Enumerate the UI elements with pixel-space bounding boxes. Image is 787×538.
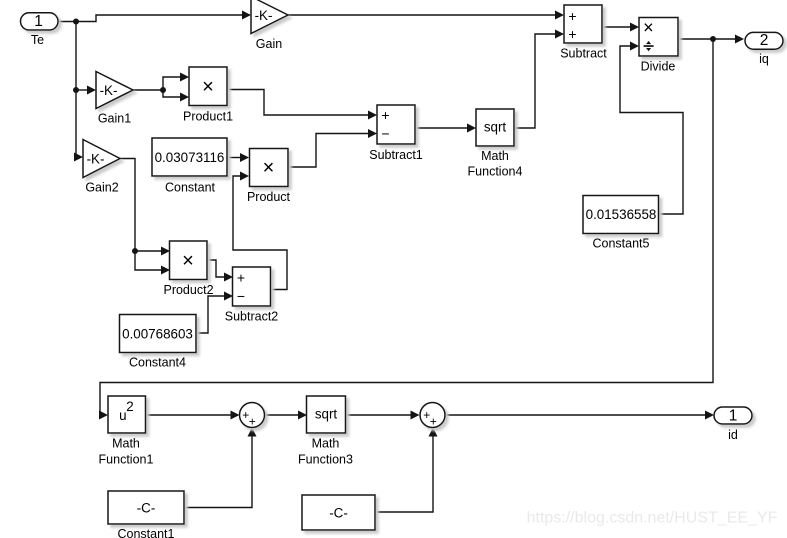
svg-text:Math: Math bbox=[112, 437, 140, 451]
svg-text:+: + bbox=[568, 8, 576, 24]
svg-text:0.03073116: 0.03073116 bbox=[155, 150, 225, 165]
svg-text:Gain1: Gain1 bbox=[98, 112, 131, 126]
svg-text:Divide: Divide bbox=[641, 59, 676, 73]
svg-text:2: 2 bbox=[760, 32, 769, 49]
svg-text:-C-: -C- bbox=[329, 506, 348, 521]
svg-text:sqrt: sqrt bbox=[315, 407, 338, 422]
svg-text:Constant1: Constant1 bbox=[118, 527, 175, 538]
svg-text:-K-: -K- bbox=[87, 152, 105, 167]
svg-text:×: × bbox=[263, 157, 275, 179]
svg-text:Math: Math bbox=[312, 437, 340, 451]
svg-text:Gain: Gain bbox=[256, 37, 282, 51]
svg-text:Constant5: Constant5 bbox=[593, 236, 650, 250]
svg-text:Math: Math bbox=[481, 149, 509, 163]
svg-text:Constant4: Constant4 bbox=[129, 356, 186, 370]
svg-text:+: + bbox=[568, 26, 576, 42]
svg-text:sqrt: sqrt bbox=[484, 120, 507, 135]
svg-text:1: 1 bbox=[34, 13, 43, 30]
svg-text:-K-: -K- bbox=[100, 83, 118, 98]
svg-text:Function1: Function1 bbox=[99, 452, 154, 466]
svg-text:+: + bbox=[237, 269, 245, 285]
svg-text:Product1: Product1 bbox=[183, 109, 233, 123]
svg-text:Function3: Function3 bbox=[298, 452, 353, 466]
svg-text:Product2: Product2 bbox=[163, 283, 213, 297]
svg-text:Subtract2: Subtract2 bbox=[225, 310, 279, 324]
svg-text:×: × bbox=[202, 76, 214, 98]
svg-text:×: × bbox=[182, 250, 194, 272]
svg-text:−: − bbox=[237, 288, 245, 304]
svg-text:Subtract1: Subtract1 bbox=[369, 148, 423, 162]
svg-text:Te: Te bbox=[31, 33, 44, 47]
svg-text:2: 2 bbox=[126, 399, 133, 414]
svg-text:Function4: Function4 bbox=[468, 164, 523, 178]
svg-text:−: − bbox=[381, 126, 389, 142]
svg-text:+: + bbox=[381, 107, 389, 123]
svg-text:+: + bbox=[249, 414, 256, 428]
svg-text:-K-: -K- bbox=[255, 8, 273, 23]
svg-text:0.00768603: 0.00768603 bbox=[122, 327, 193, 342]
svg-text:0.01536558: 0.01536558 bbox=[586, 207, 657, 222]
svg-text:Product: Product bbox=[247, 190, 291, 204]
svg-text:1: 1 bbox=[729, 407, 738, 424]
svg-text:Gain2: Gain2 bbox=[85, 181, 118, 195]
svg-text:iq: iq bbox=[759, 52, 769, 66]
svg-text:×: × bbox=[643, 18, 654, 38]
svg-text:Constant: Constant bbox=[165, 181, 216, 195]
svg-text:Subtract: Subtract bbox=[560, 46, 607, 60]
svg-text:https://blog.csdn.net/HUST_EE_: https://blog.csdn.net/HUST_EE_YF bbox=[527, 510, 778, 527]
svg-text:+: + bbox=[430, 414, 437, 428]
svg-text:id: id bbox=[728, 428, 738, 442]
svg-text:-C-: -C- bbox=[137, 501, 156, 516]
